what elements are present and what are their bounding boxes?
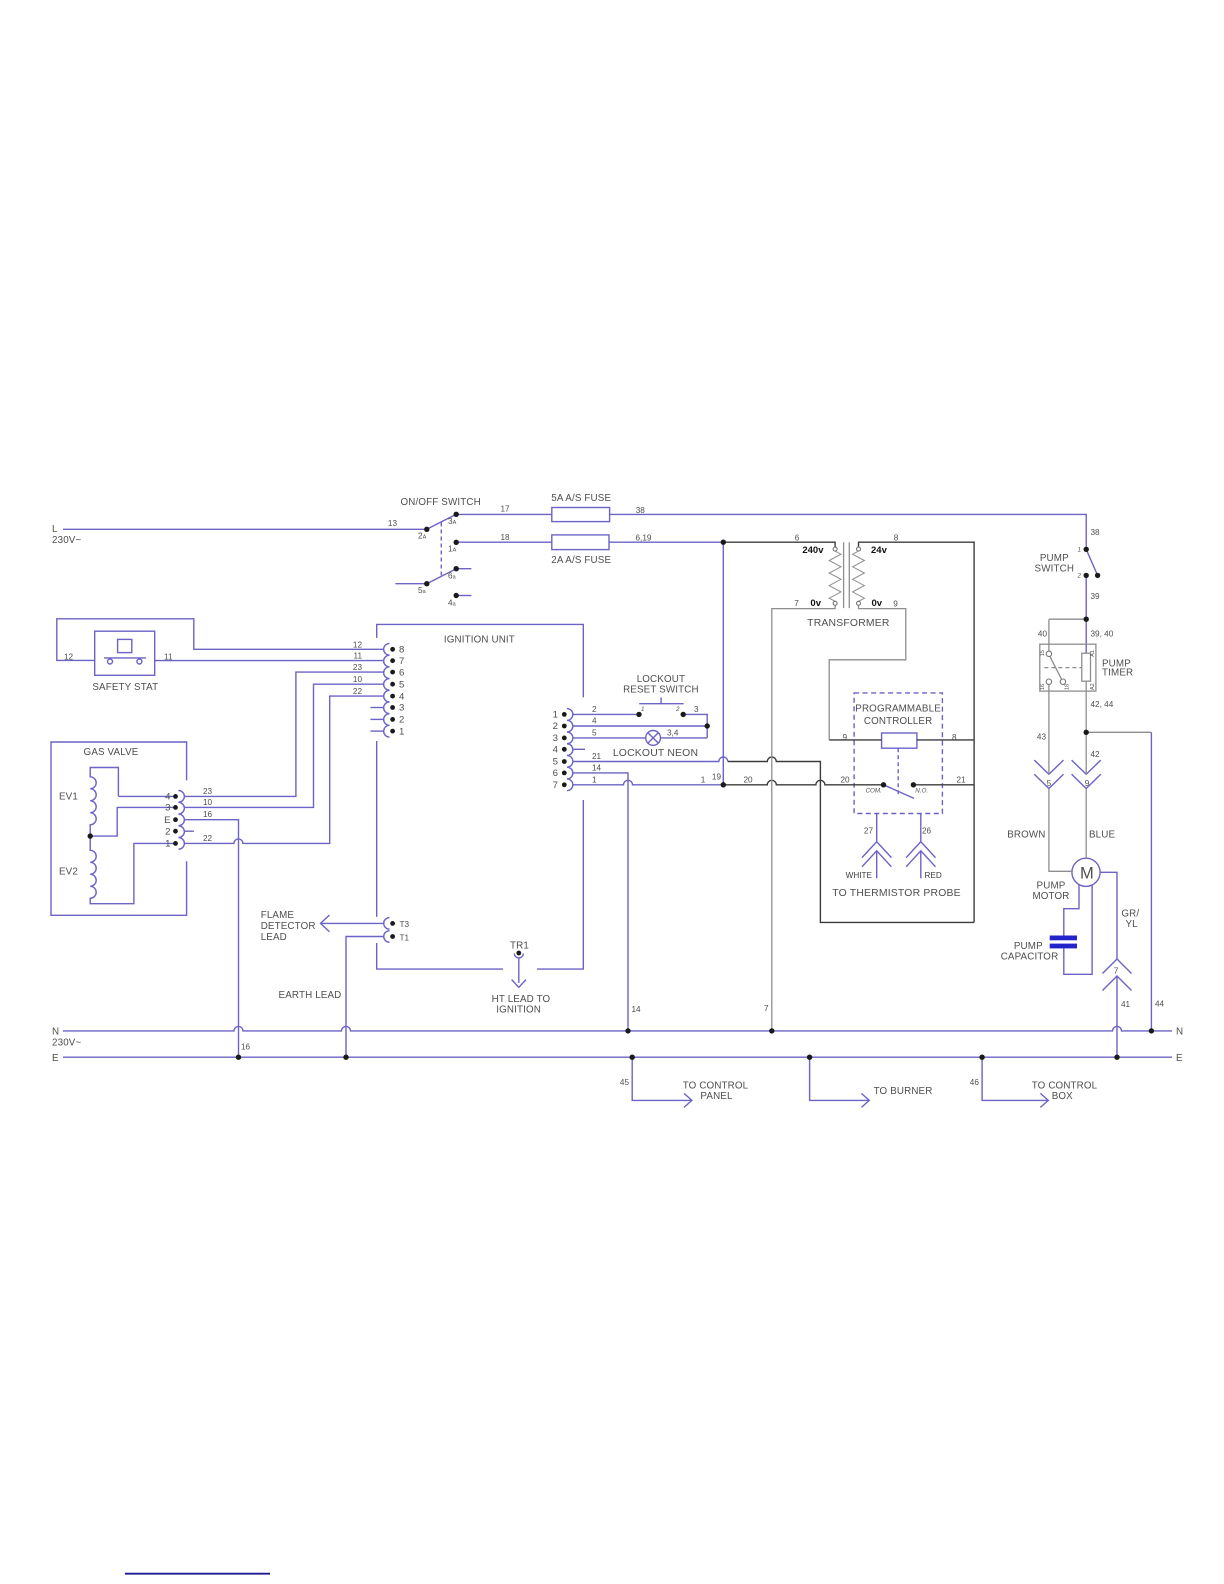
svg-text:17: 17 [500, 505, 510, 514]
svg-text:3: 3 [694, 705, 699, 714]
svg-text:RESET SWITCH: RESET SWITCH [623, 685, 699, 696]
svg-text:41: 41 [1121, 1000, 1131, 1009]
svg-text:16: 16 [241, 1043, 251, 1052]
svg-text:5: 5 [553, 757, 558, 768]
svg-text:12: 12 [353, 640, 363, 649]
svg-text:RED: RED [925, 871, 942, 880]
svg-text:39, 40: 39, 40 [1091, 630, 1114, 639]
svg-text:5A A/S FUSE: 5A A/S FUSE [551, 493, 611, 504]
svg-text:13: 13 [388, 519, 398, 528]
svg-text:7: 7 [1114, 967, 1119, 976]
svg-text:0v: 0v [872, 598, 883, 609]
svg-text:PUMP: PUMP [1040, 553, 1069, 564]
svg-text:M: M [1080, 865, 1094, 883]
svg-text:38: 38 [1091, 528, 1101, 537]
svg-text:E: E [52, 1053, 59, 1064]
svg-text:2: 2 [1076, 573, 1081, 580]
svg-text:6: 6 [795, 534, 800, 543]
svg-text:1: 1 [165, 839, 170, 850]
svg-text:18: 18 [500, 533, 510, 542]
svg-text:20: 20 [743, 776, 753, 785]
svg-text:A2: A2 [1090, 683, 1096, 690]
svg-text:23: 23 [353, 663, 363, 672]
svg-text:0v: 0v [810, 598, 821, 609]
svg-text:IGNITION: IGNITION [496, 1004, 541, 1015]
svg-text:GAS VALVE: GAS VALVE [84, 747, 139, 758]
svg-text:11: 11 [164, 653, 173, 662]
svg-text:14: 14 [592, 763, 602, 772]
svg-text:8: 8 [399, 645, 404, 656]
svg-text:20: 20 [840, 776, 850, 785]
svg-text:230V~: 230V~ [52, 1038, 81, 1049]
svg-text:3: 3 [165, 803, 170, 814]
svg-text:6: 6 [399, 667, 404, 678]
svg-text:5: 5 [592, 728, 597, 737]
svg-text:1: 1 [1077, 547, 1081, 554]
svg-text:26: 26 [922, 827, 932, 836]
svg-text:8: 8 [894, 534, 899, 543]
svg-text:1: 1 [553, 710, 558, 721]
svg-text:BLUE: BLUE [1089, 829, 1116, 840]
svg-text:LOCKOUT NEON: LOCKOUT NEON [613, 748, 698, 759]
svg-text:COM.: COM. [865, 787, 881, 794]
svg-text:27: 27 [864, 827, 874, 836]
svg-text:4: 4 [553, 745, 559, 756]
svg-text:T1: T1 [400, 933, 410, 942]
svg-text:CAPACITOR: CAPACITOR [1001, 952, 1059, 963]
svg-text:1: 1 [592, 775, 597, 784]
svg-text:4: 4 [165, 792, 171, 803]
svg-text:HT LEAD TO: HT LEAD TO [492, 994, 551, 1005]
svg-text:3A: 3A [448, 517, 457, 526]
svg-text:8: 8 [952, 733, 957, 742]
svg-text:LOCKOUT: LOCKOUT [637, 674, 685, 685]
svg-text:ON/OFF SWITCH: ON/OFF SWITCH [401, 497, 481, 508]
svg-text:1: 1 [701, 776, 706, 785]
svg-text:GR/: GR/ [1121, 909, 1139, 920]
svg-text:9: 9 [842, 733, 847, 742]
svg-text:230V~: 230V~ [52, 535, 81, 546]
svg-text:46: 46 [970, 1078, 980, 1087]
svg-text:6: 6 [553, 768, 558, 779]
svg-text:3: 3 [553, 733, 558, 744]
svg-text:2: 2 [675, 706, 680, 713]
svg-text:PUMP: PUMP [1037, 881, 1066, 892]
svg-text:14: 14 [632, 1005, 642, 1014]
svg-text:YL: YL [1126, 919, 1139, 930]
svg-text:12: 12 [64, 653, 74, 662]
svg-text:7: 7 [764, 1004, 769, 1013]
svg-text:10: 10 [353, 675, 363, 684]
svg-text:WHITE: WHITE [846, 871, 873, 880]
svg-text:TIMER: TIMER [1102, 668, 1133, 679]
svg-text:MOTOR: MOTOR [1032, 891, 1069, 902]
svg-text:E: E [164, 815, 170, 826]
svg-text:PROGRAMMABLE: PROGRAMMABLE [855, 704, 941, 715]
svg-text:N.O.: N.O. [915, 787, 928, 794]
svg-text:IGNITION UNIT: IGNITION UNIT [444, 634, 515, 645]
svg-text:10: 10 [203, 798, 213, 807]
svg-text:4a: 4a [448, 598, 457, 607]
svg-text:PANEL: PANEL [700, 1091, 733, 1102]
svg-text:40: 40 [1038, 630, 1048, 639]
svg-text:TRANSFORMER: TRANSFORMER [807, 618, 890, 629]
svg-text:18: 18 [1065, 684, 1071, 690]
svg-text:SAFETY STAT: SAFETY STAT [92, 682, 158, 693]
svg-text:240v: 240v [802, 545, 824, 556]
svg-text:7: 7 [553, 780, 558, 791]
svg-text:TO THERMISTOR PROBE: TO THERMISTOR PROBE [832, 888, 961, 899]
svg-text:2: 2 [399, 715, 404, 726]
svg-text:21: 21 [592, 752, 602, 761]
svg-text:4: 4 [592, 717, 597, 726]
svg-text:38: 38 [636, 506, 646, 515]
svg-text:21: 21 [956, 776, 966, 785]
svg-text:16: 16 [203, 810, 213, 819]
svg-text:9: 9 [1085, 779, 1090, 788]
svg-text:22: 22 [353, 687, 363, 696]
svg-text:6,19: 6,19 [636, 534, 652, 543]
svg-text:N: N [1176, 1027, 1183, 1038]
svg-text:TR1: TR1 [510, 941, 529, 952]
svg-text:SWITCH: SWITCH [1035, 564, 1075, 575]
svg-text:4: 4 [399, 691, 405, 702]
svg-text:PUMP: PUMP [1014, 941, 1043, 952]
svg-text:7: 7 [794, 599, 799, 608]
svg-text:2: 2 [592, 705, 597, 714]
svg-text:BOX: BOX [1052, 1091, 1073, 1102]
svg-text:23: 23 [203, 787, 213, 796]
svg-text:DETECTOR: DETECTOR [261, 921, 316, 932]
svg-text:5: 5 [1047, 779, 1052, 788]
svg-text:44: 44 [1155, 1000, 1165, 1009]
svg-text:5: 5 [399, 679, 404, 690]
svg-text:7: 7 [399, 656, 404, 667]
svg-text:EARTH LEAD: EARTH LEAD [279, 990, 342, 1001]
svg-text:24v: 24v [871, 545, 888, 556]
svg-text:16: 16 [1040, 684, 1046, 690]
svg-text:5a: 5a [418, 586, 427, 595]
svg-text:L: L [52, 524, 58, 535]
svg-text:EV2: EV2 [59, 867, 78, 878]
svg-text:22: 22 [203, 834, 213, 843]
svg-text:19: 19 [712, 773, 722, 782]
svg-text:TO BURNER: TO BURNER [874, 1086, 933, 1097]
svg-text:2A: 2A [418, 532, 427, 541]
svg-text:EV1: EV1 [59, 792, 78, 803]
svg-text:42: 42 [1091, 750, 1101, 759]
svg-text:45: 45 [620, 1078, 630, 1087]
svg-text:1: 1 [641, 706, 645, 713]
svg-text:TO CONTROL: TO CONTROL [1032, 1080, 1098, 1091]
svg-text:42, 44: 42, 44 [1091, 700, 1114, 709]
svg-text:TO CONTROL: TO CONTROL [683, 1080, 749, 1091]
svg-text:43: 43 [1037, 733, 1047, 742]
svg-text:39: 39 [1091, 592, 1101, 601]
svg-text:15: 15 [1040, 650, 1046, 656]
svg-text:E: E [1176, 1053, 1183, 1064]
svg-text:A1: A1 [1090, 650, 1096, 657]
svg-text:1: 1 [399, 726, 404, 737]
svg-text:2A A/S FUSE: 2A A/S FUSE [551, 555, 611, 566]
svg-text:N: N [52, 1026, 59, 1037]
svg-text:2: 2 [165, 826, 170, 837]
svg-text:6a: 6a [448, 572, 457, 581]
svg-text:3: 3 [399, 703, 404, 714]
svg-text:11: 11 [354, 652, 363, 661]
svg-text:T3: T3 [400, 920, 410, 929]
svg-text:CONTROLLER: CONTROLLER [864, 716, 932, 727]
svg-text:BROWN: BROWN [1007, 829, 1045, 840]
svg-text:3,4: 3,4 [667, 728, 679, 737]
svg-text:FLAME: FLAME [261, 910, 295, 921]
svg-text:2: 2 [553, 721, 558, 732]
svg-text:1A: 1A [448, 545, 457, 554]
svg-text:9: 9 [893, 599, 898, 608]
svg-text:LEAD: LEAD [261, 932, 287, 943]
